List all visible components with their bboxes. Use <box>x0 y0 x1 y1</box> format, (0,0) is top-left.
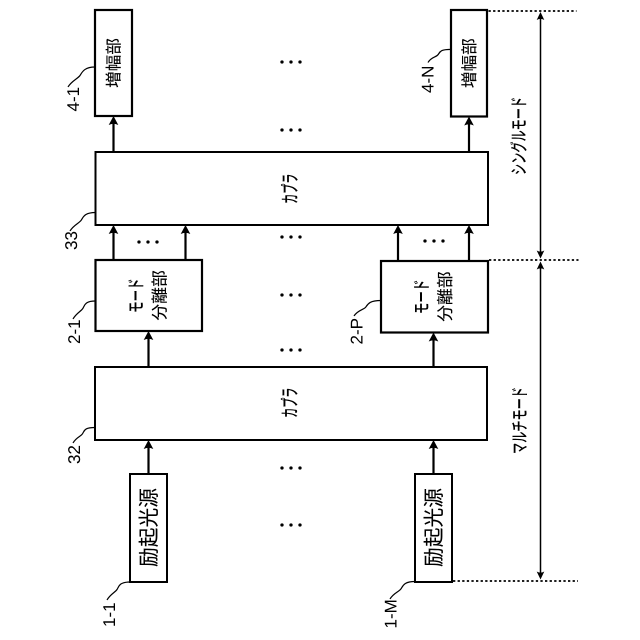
label 1-1 <box>103 603 115 625</box>
arrow 2-1 to 33 upper <box>109 225 119 260</box>
text カプラ (32) <box>281 389 298 417</box>
text モード (2-1) <box>128 280 143 312</box>
leader 33 <box>70 213 96 232</box>
label 4-1 <box>67 88 79 111</box>
leader 4-N <box>428 49 452 62</box>
ellipsis between 1-1 and 1-M <box>280 523 301 526</box>
arrow 2-1 to 33 lower <box>181 225 191 260</box>
ellipsis between separator output groups <box>280 235 301 238</box>
text 増幅部 (4-1) <box>106 39 121 88</box>
text 分離部 (2-P) <box>437 272 453 321</box>
label 2-P <box>351 319 363 344</box>
box U4-1 amplifier 増幅部 <box>95 10 132 116</box>
leader 2-1 <box>73 301 96 319</box>
leader 2-P <box>354 301 381 317</box>
arrow 33 to 4-1 <box>109 116 119 152</box>
box U32 coupler カプラ <box>95 367 487 440</box>
arrow 2-P to 33 upper <box>393 225 403 261</box>
ellipsis between 2-1 and 2-P <box>280 293 301 296</box>
leader 4-1 <box>68 67 95 87</box>
dashed extension from 4-N box <box>489 10 577 12</box>
box U33 coupler カプラ <box>96 152 489 225</box>
ellipsis between 32 output arrows <box>280 348 301 351</box>
box U2-P mode separator モード分離部 <box>381 261 488 333</box>
text 励起光源 (1-1) <box>139 489 159 567</box>
box U1-M excitation light source 励起光源 <box>415 474 452 582</box>
arrow 1-M to 32 <box>429 440 439 474</box>
label マルチモード multi mode <box>512 388 527 453</box>
text 増幅部 (4-N) <box>461 39 476 88</box>
dashed extension from 2-P box <box>489 259 579 261</box>
text 励起光源 (1-M) <box>424 489 444 567</box>
arrow 33 to 4-N <box>464 117 474 153</box>
label 1-M <box>385 601 397 628</box>
label シングルモード single mode <box>510 98 527 174</box>
box U4-N amplifier 増幅部 <box>451 10 487 117</box>
leader 1-M <box>390 582 415 600</box>
box U2-1 mode separator モード分離部 <box>96 260 203 331</box>
dimension arrow single-mode span <box>537 12 545 259</box>
box U1-1 excitation light source 励起光源 <box>130 474 167 582</box>
label 33 <box>65 232 77 250</box>
label 2-1 <box>68 320 80 343</box>
dimension arrow multi-mode span <box>537 262 545 580</box>
arrow 1-1 to 32 <box>144 440 154 474</box>
arrow 32 to 2-P <box>429 333 439 368</box>
text カプラ (33) <box>281 175 298 203</box>
label 32 <box>68 446 80 464</box>
ellipsis between 2-1 output arrows <box>137 240 158 243</box>
arrow 32 to 2-1 <box>144 331 154 367</box>
ellipsis between 4-1 and 4-N <box>280 60 301 63</box>
ellipsis between 2-P output arrows <box>423 239 444 242</box>
text モード (2-P) <box>414 281 429 313</box>
text 分離部 (2-1) <box>151 271 167 320</box>
dashed extension from 1-M box <box>453 580 578 582</box>
arrow 2-P to 33 lower <box>464 225 474 261</box>
ellipsis between 33 output arrows <box>280 128 301 131</box>
label 4-N <box>422 67 434 93</box>
leader 1-1 <box>107 582 130 600</box>
leader 32 <box>73 428 95 444</box>
ellipsis between input arrows of 32 <box>280 466 301 469</box>
